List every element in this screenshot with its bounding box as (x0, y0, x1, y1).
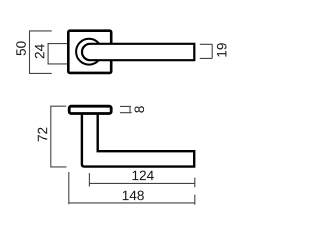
outer collar circle (76, 39, 102, 65)
dim 19 bracket (200, 44, 212, 58)
dim 24 bracket (48, 44, 68, 64)
extension line from rosette face (68, 172, 70, 204)
dim text 72 (38, 128, 47, 142)
dim text 124 (133, 171, 154, 180)
dim text 148 (123, 191, 144, 201)
dim 124 (89, 173, 195, 187)
square rosette (68, 31, 111, 73)
L-shaped neck + lever (82, 113, 194, 167)
dim 72 bracket (51, 106, 67, 167)
dim 148 (69, 195, 196, 205)
dim 8 bracket (120, 106, 132, 112)
dim text 50 (16, 41, 26, 55)
dim text 19 (217, 43, 227, 56)
dim text 8 (134, 106, 144, 112)
rosette plate (side) (69, 106, 111, 113)
dim text 24 (35, 44, 44, 58)
dim 50 bracket (30, 31, 52, 74)
lever (front view, stadium shape) (82, 44, 194, 60)
